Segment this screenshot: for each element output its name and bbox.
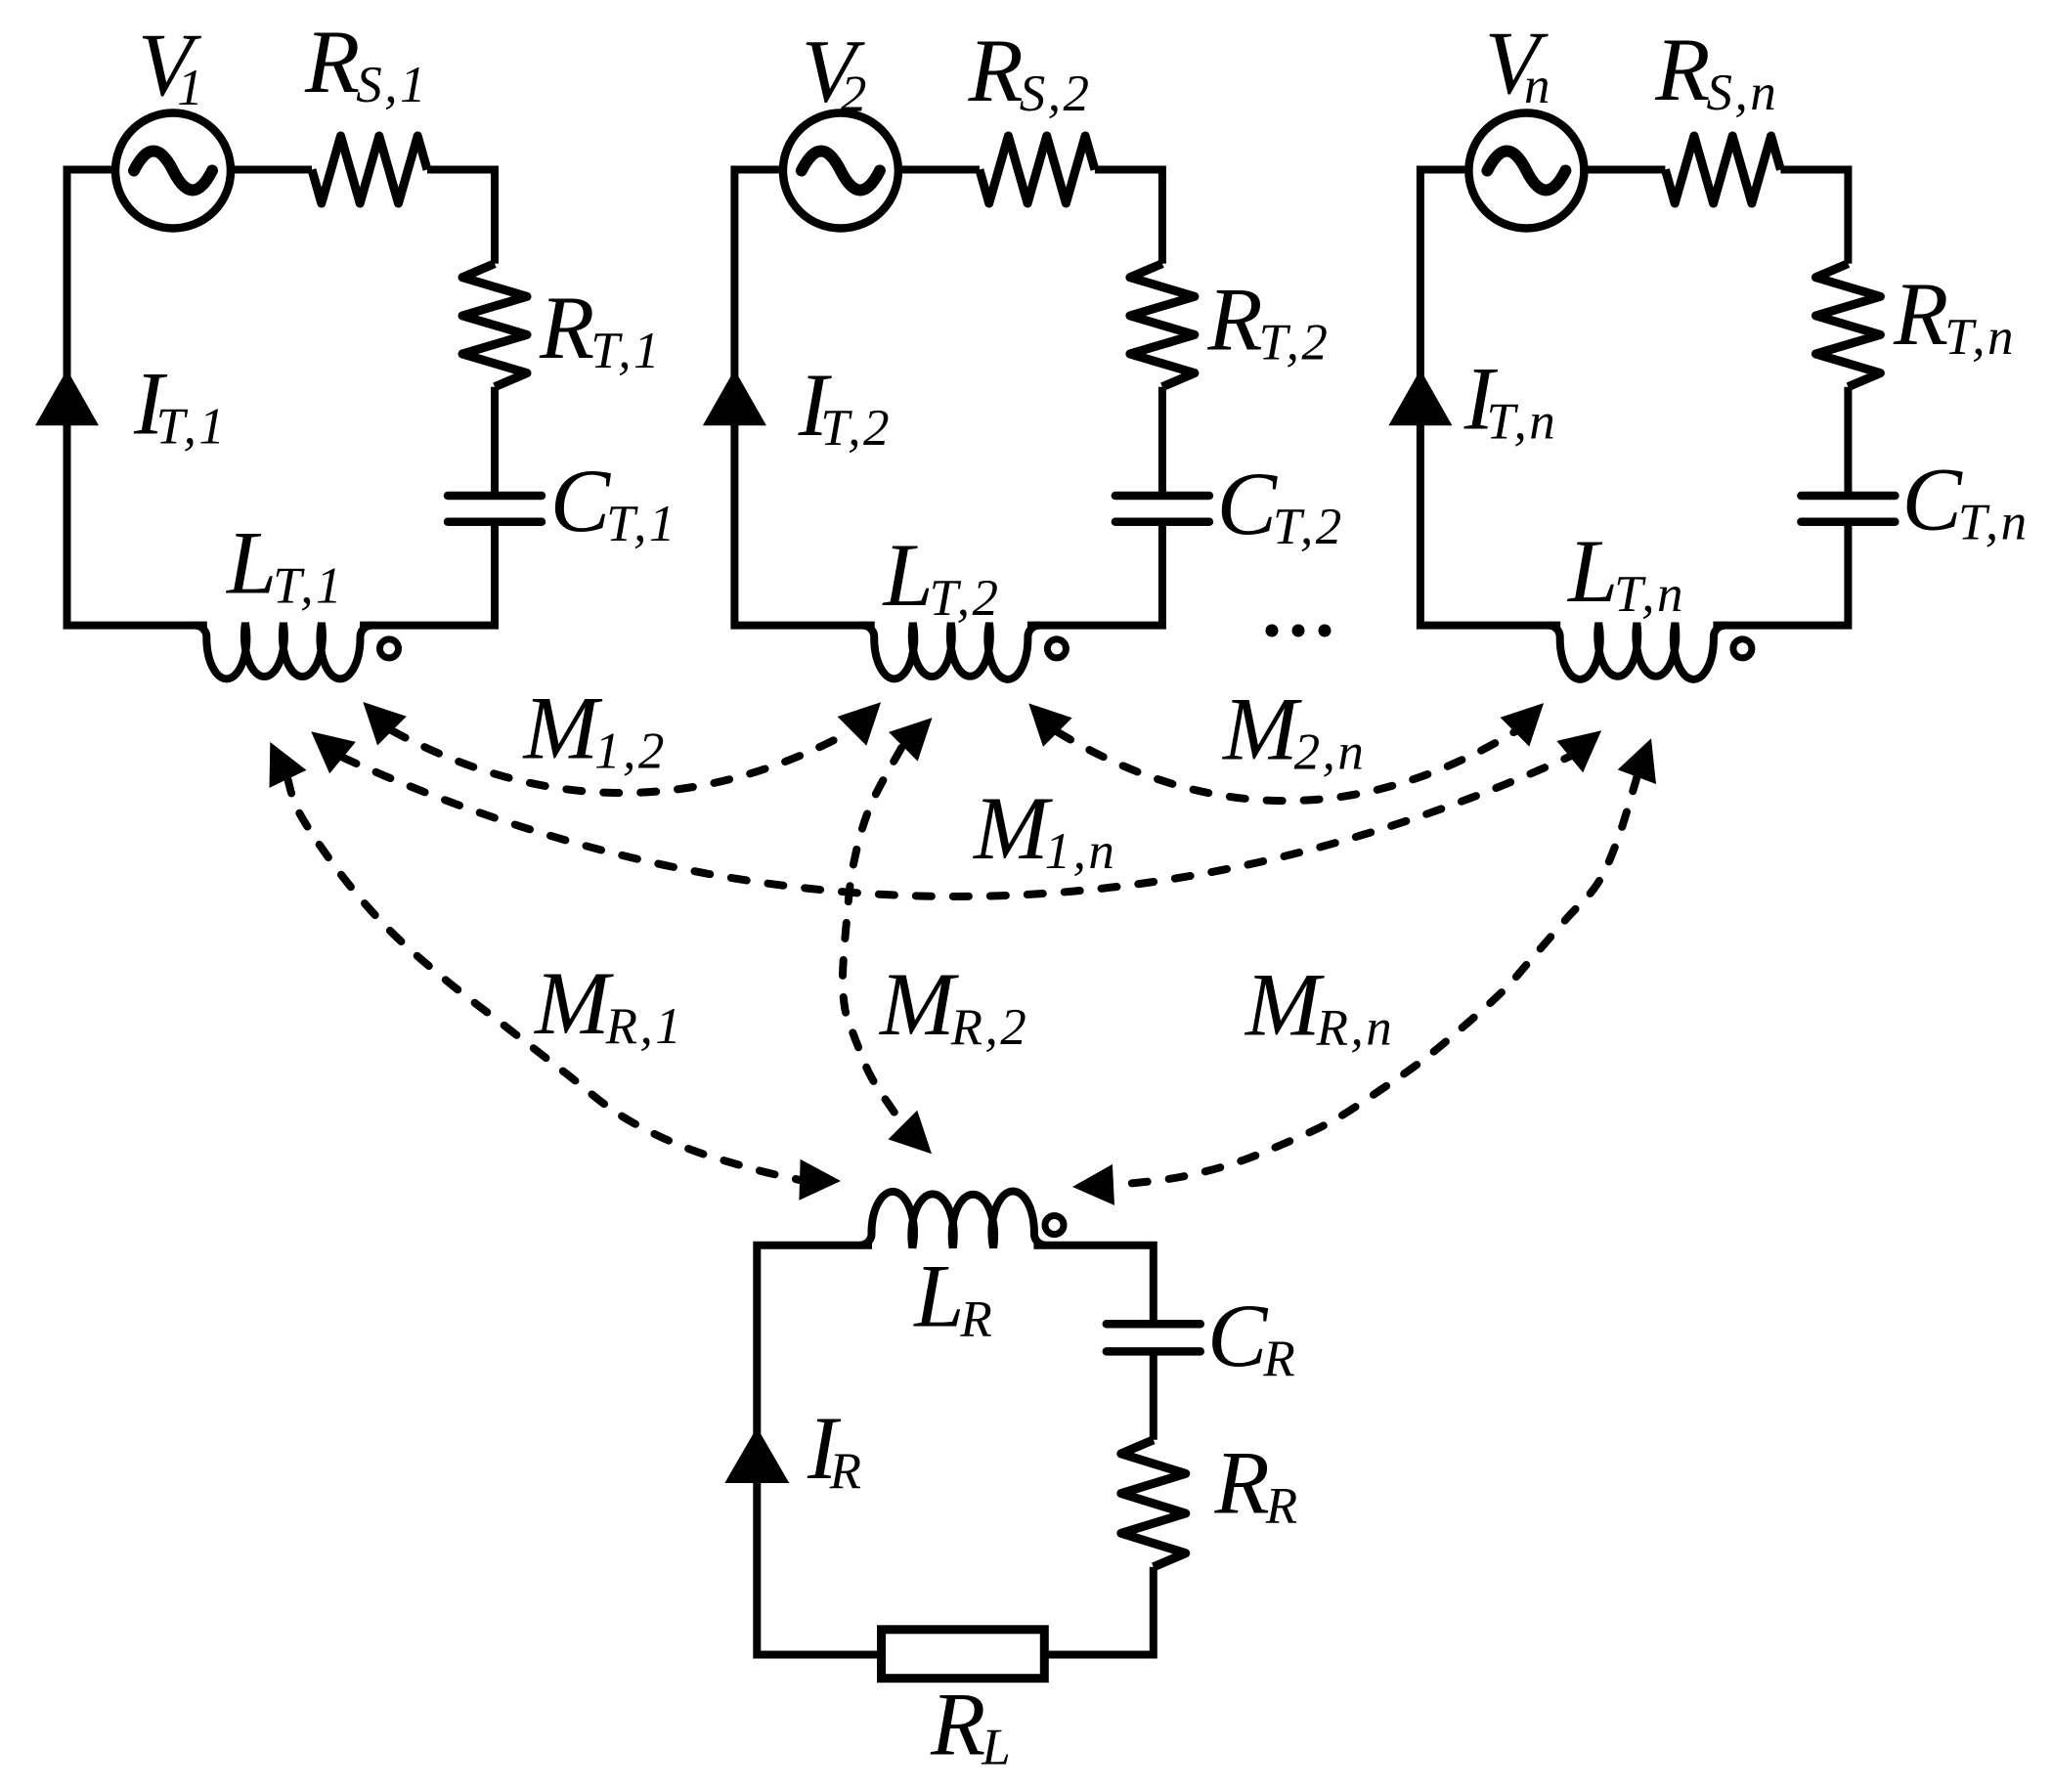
current arrow IT,1	[35, 370, 99, 425]
ellipsis between Tx2 and Txn	[1266, 625, 1332, 637]
wire: Tx1 top-right segment (RS out to right corner, down to RT)	[427, 170, 495, 264]
mutual inductance arc MR,1	[287, 778, 800, 1180]
wire: Tx2 left + top-left + bottom-left segments	[734, 170, 874, 626]
wire: Rx RR to bottom-right corner	[1044, 1567, 1154, 1655]
capacitor CR	[1107, 1324, 1201, 1351]
load resistor RL (box)	[882, 1630, 1045, 1679]
arrowhead M1,n at LT,n	[1556, 730, 1601, 772]
arrowhead MR,2 at LR	[889, 1111, 933, 1155]
wire: Txn RT to capacitor	[1844, 387, 1852, 496]
resistor RS,n	[1665, 136, 1780, 203]
capacitor CT,1	[448, 496, 542, 522]
inductor LR	[860, 1191, 1045, 1247]
wire: Txn top-right segment (RS out to right corner, down to RT)	[1780, 170, 1848, 264]
mutual inductance arc MR,n	[1113, 776, 1637, 1185]
phase dot of LR	[1045, 1216, 1064, 1235]
wire: Rx top-right + right down to CR	[1033, 1246, 1153, 1325]
mutual inductance arc M2,n	[1057, 731, 1515, 801]
resistor RS,2	[980, 136, 1095, 203]
current arrow IR	[724, 1427, 789, 1483]
AC source Vn	[1468, 113, 1584, 229]
arrowhead M2,n at LT,n	[1501, 703, 1545, 747]
wire: Tx1 between V source and RS	[235, 166, 312, 174]
mutual inductance arc M1,n	[342, 756, 1571, 896]
AC source V1	[115, 113, 231, 229]
resistor RS,1	[312, 136, 427, 203]
arrowhead MR,1 at LT,1	[270, 742, 307, 788]
current arrow IT,2	[703, 370, 766, 425]
arrowhead M2,n at LT,2	[1028, 703, 1072, 747]
arrowhead M1,2 at LT,1	[363, 702, 407, 746]
wire: Tx1 left + top-left + bottom-left segments	[67, 170, 207, 626]
inductor LT,2	[863, 623, 1039, 679]
mutual inductance arc M1,2	[391, 730, 852, 793]
wire: Tx1 RT to capacitor	[491, 387, 499, 496]
arrowhead MR,n at LR	[1072, 1164, 1114, 1205]
wire: Tx2 RT to capacitor	[1158, 387, 1166, 496]
capacitor CT,2	[1115, 496, 1209, 522]
arrowhead MR,2 at LT,2	[889, 718, 933, 762]
inductor LT,1	[196, 623, 371, 678]
wire: Tx2 between V source and RS	[902, 166, 980, 174]
resistor RT,n	[1815, 264, 1880, 387]
mutual inductance arc MR,2	[843, 748, 903, 1125]
arrowhead M1,n at LT,1	[311, 731, 356, 773]
wire: Rx left + top-left segment	[757, 1246, 881, 1655]
arrowhead MR,n at LT,n	[1618, 738, 1656, 784]
wire: Tx2 capacitor to bottom-right corner	[1027, 522, 1162, 626]
resistor RR	[1121, 1440, 1186, 1567]
phase dot of LT,1	[380, 639, 399, 658]
wire: Rx CR to RR	[1150, 1351, 1157, 1439]
wire: Txn capacitor to bottom-right corner	[1713, 522, 1848, 626]
arrowhead M1,2 at LT,2	[838, 702, 882, 746]
resistor RT,1	[462, 264, 527, 387]
arrowhead MR,1 at LR	[799, 1159, 841, 1201]
wire: Tx1 capacitor to bottom-right corner	[360, 522, 495, 626]
wire: Tx2 top-right segment (RS out to right corner, down to RT)	[1095, 170, 1162, 264]
phase dot of LT,n	[1733, 639, 1752, 658]
wire: Txn between V source and RS	[1588, 166, 1665, 174]
current arrow IT,n	[1388, 370, 1452, 425]
inductor LT,n	[1549, 623, 1725, 679]
AC source V2	[783, 113, 898, 229]
resistor RT,2	[1130, 264, 1195, 387]
capacitor CT,n	[1801, 496, 1895, 522]
phase dot of LT,2	[1047, 639, 1066, 658]
wire: Txn left + top-left + bottom-left segments	[1420, 170, 1560, 626]
